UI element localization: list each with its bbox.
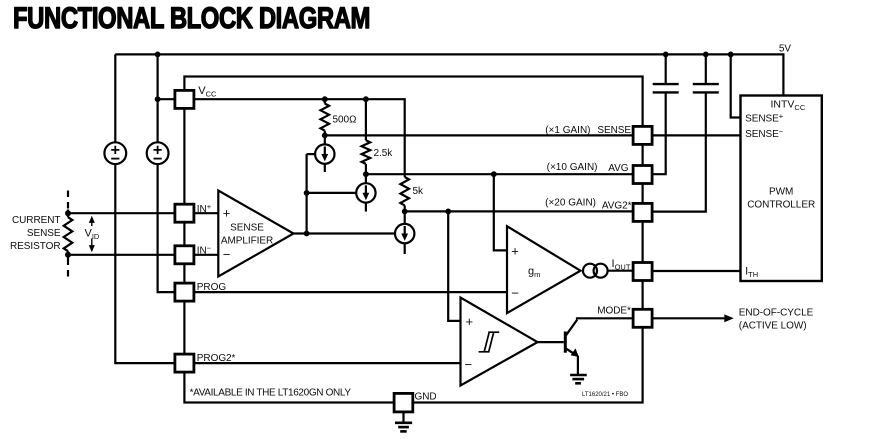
svg-text:PWM: PWM (769, 186, 793, 197)
wire SENSE (x1 gain) (325, 134, 633, 136)
svg-text:LT1620/21 • FBO: LT1620/21 • FBO (582, 392, 628, 398)
svg-text:−: − (511, 285, 519, 300)
transistor Q1 NPN (564, 320, 579, 375)
wire VCC tap (158, 98, 175, 100)
wire comparator plus input from AVG2 (448, 211, 460, 321)
wire left outer vertical to PROG2 (114, 54, 116, 142)
wire Q1 collector to MODE (577, 318, 633, 319)
wire sense amp output (294, 232, 395, 234)
svg-text:GND: GND (415, 391, 437, 402)
ground Q1 emitter (570, 375, 587, 383)
junction 500ohm top (322, 96, 328, 102)
svg-text:FUNCTIONAL BLOCK DIAGRAM: FUNCTIONAL BLOCK DIAGRAM (13, 2, 370, 35)
pin VCC (175, 90, 194, 108)
resistor 5k (400, 177, 409, 205)
svg-text:AVG2*: AVG2* (602, 201, 632, 212)
chip outline box LT1620 (184, 77, 642, 403)
junction C2 top (703, 52, 709, 58)
pin MODE (633, 309, 652, 327)
svg-text:SENSE: SENSE (597, 125, 631, 136)
svg-text:SENSE: SENSE (230, 223, 264, 234)
wire IN+ from resistor (68, 212, 218, 214)
junction AVG2 to comparator (445, 209, 451, 215)
PWM controller box (741, 96, 822, 282)
svg-text:+: + (466, 314, 474, 329)
wire PROG2 to comparator minus (194, 362, 461, 364)
svg-text:(×10 GAIN): (×10 GAIN) (547, 162, 598, 173)
pin PROG2 (175, 354, 194, 372)
svg-text:−: − (465, 357, 473, 372)
ground symbol GND (395, 412, 412, 432)
pin PROG (175, 283, 194, 301)
svg-text:CURRENT: CURRENT (12, 215, 61, 226)
svg-text:(×20 GAIN): (×20 GAIN) (545, 197, 596, 208)
svg-text:CONTROLLER: CONTROLLER (747, 200, 815, 211)
current source I1 (315, 135, 334, 172)
pin IN- (175, 246, 194, 264)
svg-text:*AVAILABLE IN THE LT1620GN ONL: *AVAILABLE IN THE LT1620GN ONLY (190, 388, 352, 399)
svg-text:−: − (223, 247, 231, 262)
wire control bus vertical (306, 154, 308, 233)
junction 2.5k top (363, 96, 369, 102)
current source I2 (356, 174, 375, 211)
wire ITH to PWM (652, 270, 740, 272)
junction sense resistor top (65, 210, 71, 216)
op-amp U1 sense amplifier (218, 191, 293, 277)
wire I1 control tap (307, 153, 316, 155)
wire I2 control tap (307, 192, 357, 194)
wire gm plus input from AVG (494, 174, 507, 250)
junction AVG to gm+ (491, 171, 497, 177)
wire AVG2 (x20 gain) (405, 210, 633, 212)
junction 500ohm bottom / SENSE wire (322, 133, 328, 139)
svg-text:2.5k: 2.5k (374, 148, 394, 159)
comparator U3 with hysteresis (461, 298, 538, 386)
capacitor C1 (652, 54, 679, 174)
current mirror double circle (583, 264, 608, 278)
resistor 2.5k (365, 99, 367, 140)
svg-text:MODE*: MODE* (597, 306, 631, 317)
wire PROG to gm minus (194, 291, 507, 293)
wire 5V rail top (115, 54, 783, 95)
svg-text:+: + (223, 206, 231, 221)
svg-text:+: + (511, 243, 519, 258)
svg-text:5V: 5V (779, 44, 792, 55)
wire IOUT (608, 270, 634, 272)
op-amp U2 gm amplifier (507, 226, 581, 313)
pin IN+ (175, 204, 194, 222)
resistor 500ohm (324, 99, 326, 103)
pin SENSE (633, 126, 652, 144)
svg-text:(ACTIVE LOW): (ACTIVE LOW) (739, 321, 807, 332)
svg-text:SENSE: SENSE (27, 228, 61, 239)
wire IN- from resistor (68, 254, 218, 256)
junction top rail / V2 (155, 52, 161, 58)
svg-text:AVG: AVG (608, 163, 628, 174)
wire VCC rail to 5k (194, 99, 405, 177)
current source I3 (395, 211, 414, 254)
svg-text:AMPLIFIER: AMPLIFIER (221, 236, 273, 247)
wire MODE output arrow (652, 317, 727, 319)
pin AVG (633, 166, 652, 184)
svg-text:500Ω: 500Ω (333, 115, 357, 126)
junction sense amp output (304, 231, 310, 237)
junction 5k bottom / AVG2 wire (402, 209, 408, 215)
pin AVG2 (633, 203, 652, 221)
junction sense resistor bottom (65, 252, 71, 258)
svg-text:PROG2*: PROG2* (197, 353, 236, 364)
junction VCC tap (155, 96, 161, 102)
voltage source V1 (plus/minus circle) (104, 142, 126, 164)
capacitor C2 (652, 54, 719, 211)
svg-text:SENSE+: SENSE+ (745, 111, 784, 124)
wire SENSE- to PWM (652, 134, 740, 136)
VID measurement arrow (84, 216, 101, 253)
svg-text:(×1 GAIN): (×1 GAIN) (545, 125, 590, 136)
junction SENSE+ branch (728, 52, 734, 58)
wire second vertical to PROG (157, 54, 159, 142)
wire SENSE+ branch (731, 54, 741, 117)
svg-text:PROG: PROG (197, 282, 227, 293)
pin GND (394, 393, 413, 412)
wire comparator output to Q1 base (538, 341, 564, 343)
svg-text:END-OF-CYCLE: END-OF-CYCLE (739, 307, 814, 318)
svg-text:5k: 5k (413, 186, 425, 197)
current sense resistor (external) (64, 191, 73, 278)
junction I2 control (304, 190, 310, 196)
svg-text:SENSE−: SENSE− (745, 127, 784, 140)
voltage source V2 (plus/minus circle) (147, 142, 169, 164)
wire AVG (x10 gain) (366, 173, 633, 175)
junction C1 top (663, 52, 669, 58)
junction 2.5k bottom / AVG wire (363, 171, 369, 177)
pin IOUT (633, 263, 652, 281)
svg-text:RESISTOR: RESISTOR (10, 241, 61, 252)
